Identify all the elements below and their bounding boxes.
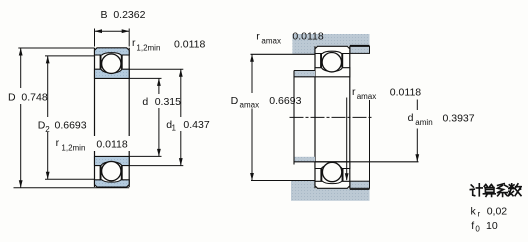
D2 dimension text <box>38 120 87 134</box>
D2 dimension arrow top <box>46 56 50 64</box>
r_amax top label <box>256 30 324 45</box>
svg-text:0.437: 0.437 <box>183 119 209 131</box>
housing shoulder strip bottom right <box>350 181 370 188</box>
svg-text:r: r <box>352 86 356 98</box>
B dimension arrow right <box>122 29 130 33</box>
d dimension extension lines <box>129 78 161 156</box>
svg-text:k: k <box>471 205 477 217</box>
housing band bottom right edge line <box>350 188 370 190</box>
svg-text:10: 10 <box>486 220 498 232</box>
inner ring bottom (right drawing) <box>315 162 350 169</box>
bearing side left wire <box>314 46 316 188</box>
svg-text:1,2min: 1,2min <box>61 144 85 153</box>
D dimension arrow top <box>19 48 23 56</box>
ball top (right drawing) <box>322 53 341 72</box>
damin arrow <box>415 154 419 162</box>
shaft shoulder top edge line <box>294 70 315 72</box>
inner ring top (right drawing) <box>315 68 350 77</box>
svg-text:D 0.748: D 0.748 <box>8 91 48 103</box>
r_amax leader arrow <box>345 173 349 181</box>
svg-text:amin: amin <box>415 118 432 127</box>
svg-text:0.315: 0.315 <box>155 96 181 108</box>
d1 dimension text <box>166 119 210 133</box>
bearing body white (right drawing) <box>315 46 350 188</box>
svg-text:0.0118: 0.0118 <box>174 39 205 51</box>
d1 dimension extension lines <box>129 69 183 165</box>
kr factor line <box>471 205 508 218</box>
char 算 <box>483 184 495 196</box>
r12min bottom label white mask <box>54 136 134 151</box>
race shoulder bar bottom left (right drawing) <box>320 169 322 181</box>
B dimension extension lines <box>95 29 130 47</box>
housing shoulder strip top right <box>350 46 370 53</box>
ball top (left drawing) <box>102 54 121 73</box>
svg-text:D: D <box>231 95 239 107</box>
svg-text:0.0118: 0.0118 <box>390 87 421 99</box>
d dimension arrow top <box>157 78 161 86</box>
svg-text:amax: amax <box>357 92 377 101</box>
r_amax leader line <box>346 98 348 181</box>
d dimension line <box>158 78 160 94</box>
housing band top <box>292 34 369 54</box>
svg-text:r: r <box>478 210 481 219</box>
svg-text:amax: amax <box>240 101 260 110</box>
d dimension arrow bottom <box>157 149 161 157</box>
D dimension line <box>20 48 22 88</box>
damin text <box>408 112 475 127</box>
centerline <box>290 116 373 118</box>
svg-text:0.3937: 0.3937 <box>443 113 475 125</box>
race shoulder bar bottom left <box>100 166 102 180</box>
svg-text:r: r <box>256 30 260 42</box>
svg-text:0,02: 0,02 <box>487 205 508 217</box>
bearing side right wire <box>349 46 351 188</box>
f0 factor line <box>471 220 498 233</box>
Damax text <box>231 95 302 109</box>
chinese title 计算系数 (drawn strokes) <box>470 184 521 197</box>
d1 dimension arrow bottom <box>179 158 183 166</box>
race shoulder bar top left <box>100 55 102 69</box>
svg-text:2: 2 <box>45 125 50 134</box>
race shoulder bar top right <box>121 55 123 69</box>
extension line right of bearing <box>369 100 371 181</box>
d dimension text <box>142 96 181 108</box>
inner ring top (left drawing) <box>95 69 130 78</box>
svg-text:1: 1 <box>172 124 177 133</box>
race shoulder bar bottom right <box>121 166 123 180</box>
Damax dimension line <box>251 54 253 180</box>
char 系 <box>498 184 508 197</box>
svg-text:0.0118: 0.0118 <box>292 30 323 42</box>
svg-text:f: f <box>471 220 474 232</box>
r12min top label <box>132 37 205 53</box>
svg-text:B 0.2362: B 0.2362 <box>101 9 146 21</box>
Damax arrow top <box>250 54 254 62</box>
B dimension line <box>95 30 130 32</box>
da extension line (bore line, extends right to damin arrow) <box>294 161 419 163</box>
D2 dimension arrow bottom <box>46 172 50 180</box>
svg-text:0.6693: 0.6693 <box>269 95 301 107</box>
svg-text:0.6693: 0.6693 <box>55 120 87 132</box>
svg-text:0: 0 <box>475 224 480 233</box>
damin dimension line <box>416 100 418 162</box>
svg-text:r: r <box>56 137 60 149</box>
outer ring bottom (right drawing) <box>315 181 350 188</box>
r12min bottom label <box>56 137 128 153</box>
D2 dimension extension lines <box>45 56 94 179</box>
Damax arrow bottom <box>250 173 254 181</box>
ball bottom (left drawing) <box>102 161 121 180</box>
char 计 <box>470 184 482 196</box>
svg-text:d: d <box>142 96 148 108</box>
char 数 <box>509 184 522 196</box>
D dimension arrow bottom <box>19 180 23 188</box>
shaft shoulder block bottom <box>294 157 315 162</box>
ball bottom (right drawing) <box>322 162 341 181</box>
svg-text:amax: amax <box>261 36 281 45</box>
housing band top right edge line <box>350 44 370 46</box>
r_amax second label <box>352 86 421 101</box>
bearing outline left side wire <box>94 48 96 187</box>
race shoulder bar top left (right drawing) <box>320 54 322 68</box>
outer ring bottom (left drawing) <box>95 180 130 187</box>
svg-text:1,2min: 1,2min <box>136 44 160 53</box>
D2 dimension line <box>47 56 49 117</box>
shaft bore line top (block bottom edge) <box>294 76 315 78</box>
svg-text:0.0118: 0.0118 <box>96 138 127 150</box>
outer ring top (left drawing) <box>95 48 130 55</box>
race shoulder bar bottom right (right drawing) <box>342 169 344 181</box>
D dimension extension lines <box>14 48 130 188</box>
inner ring bottom (left drawing) <box>95 156 130 165</box>
svg-text:d: d <box>408 112 414 124</box>
d1 dimension line <box>180 69 182 117</box>
d1 dimension arrow top <box>179 69 183 77</box>
race shoulder bar top right (right drawing) <box>341 54 343 68</box>
housing shoulder line bottom left (Da level) <box>251 180 315 182</box>
bearing outline right side wire <box>128 48 130 187</box>
outer ring top (right drawing) <box>315 46 350 53</box>
shaft shoulder block top <box>294 71 315 77</box>
B dimension arrow left <box>95 29 103 33</box>
housing shoulder line top left (Da level) <box>251 53 316 55</box>
svg-text:r: r <box>132 37 136 49</box>
housing band bottom <box>291 181 370 201</box>
shaft step face line <box>293 71 295 165</box>
